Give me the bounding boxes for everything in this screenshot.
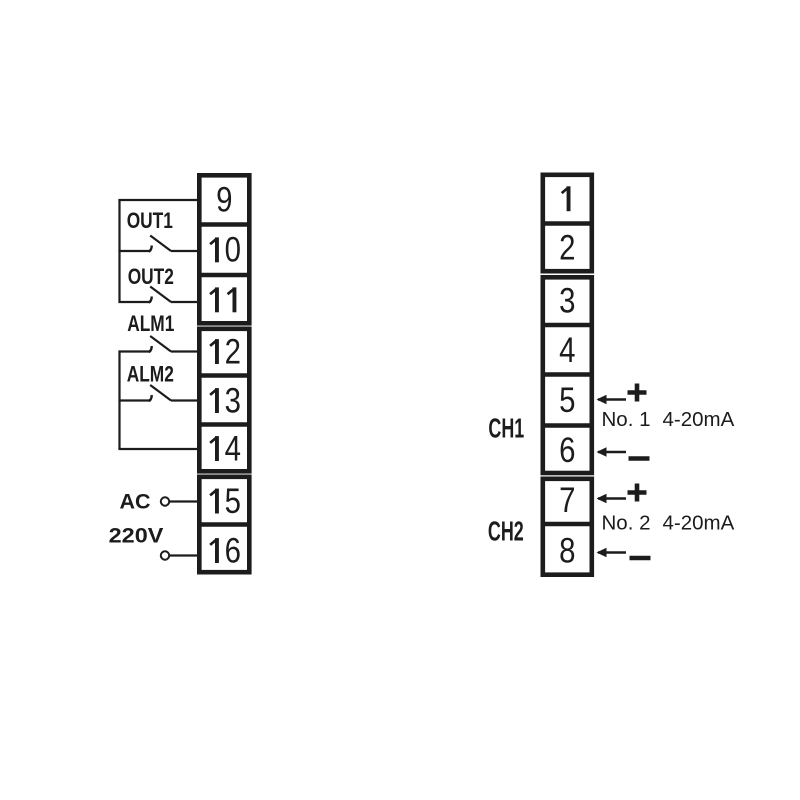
- switch OUT2 contact tick: [149, 297, 152, 303]
- divider terminals 3/4: [541, 323, 595, 327]
- divider terminals 4/5: [541, 372, 595, 376]
- svg-text:5: 5: [225, 482, 241, 521]
- wire to terminal 11 right segment: [171, 301, 197, 303]
- arrow into terminal 7: [597, 494, 627, 503]
- terminal block right section 3-6: [543, 277, 592, 473]
- divider terminals 5/6: [541, 423, 595, 427]
- divider terminals 15/16: [197, 522, 252, 526]
- svg-text:3: 3: [225, 381, 241, 420]
- terminal block right section 1-2: [543, 175, 592, 271]
- minus sign channel 2: [630, 556, 651, 561]
- divider terminals 1/2: [541, 221, 595, 225]
- svg-text:6: 6: [559, 431, 575, 470]
- plus sign channel 1: [628, 384, 647, 402]
- wire to terminal 16: [170, 554, 197, 556]
- terminal 15 label: [210, 482, 241, 521]
- terminal 16 label: [210, 531, 241, 570]
- terminal 14 label: [210, 429, 241, 468]
- svg-text:5: 5: [559, 381, 575, 420]
- terminal 10 label: [210, 230, 241, 269]
- switch ALM1 blade: [150, 336, 171, 352]
- terminal 12 label: [210, 332, 241, 371]
- wire to terminal 15: [170, 500, 197, 502]
- divider terminals 7/8: [541, 522, 595, 526]
- AC terminal circle 16: [161, 551, 169, 559]
- terminal 13 label: [210, 381, 241, 420]
- wire to terminal 12 left segment: [118, 350, 149, 352]
- wire to terminal 10 left segment: [118, 250, 149, 252]
- svg-text:3: 3: [559, 281, 575, 320]
- terminal block right section 7-8: [543, 479, 592, 575]
- divider terminals 13/14: [197, 422, 252, 426]
- arrow into terminal 8: [597, 548, 627, 557]
- switch OUT1 contact tick: [149, 246, 152, 252]
- minus sign channel 1: [629, 456, 650, 461]
- switch OUT1 blade: [150, 236, 171, 252]
- divider terminals 9/10: [197, 222, 252, 226]
- wire to terminal 10 right segment: [171, 250, 197, 252]
- svg-text:AC: AC: [119, 490, 150, 514]
- switch ALM1 contact tick: [149, 346, 152, 352]
- svg-text:6: 6: [225, 531, 241, 570]
- divider terminals 10/11: [197, 273, 252, 277]
- switch OUT2 blade: [150, 287, 171, 303]
- switch ALM2 contact tick: [149, 395, 152, 401]
- svg-text:7: 7: [559, 481, 575, 520]
- terminal 11 label: [210, 287, 236, 312]
- wire to terminal 13 left segment: [118, 399, 149, 401]
- svg-text:2: 2: [559, 228, 575, 267]
- arrow into terminal 5: [597, 395, 627, 404]
- terminal block left section 12-14: [199, 329, 249, 472]
- svg-text:0: 0: [225, 230, 241, 269]
- divider terminals 12/13: [197, 373, 252, 377]
- svg-text:CH1: CH1: [488, 413, 524, 444]
- terminal 1 label: [562, 186, 571, 211]
- svg-text:No. 1: No. 1: [602, 408, 651, 431]
- wire to terminal 9: [118, 199, 197, 201]
- svg-text:No. 2: No. 2: [602, 512, 651, 535]
- svg-text:2: 2: [225, 332, 241, 371]
- svg-text:ALM2: ALM2: [127, 363, 174, 388]
- svg-text:ALM1: ALM1: [127, 312, 174, 337]
- svg-text:8: 8: [559, 531, 575, 570]
- svg-text:9: 9: [216, 180, 232, 219]
- wire bus ALM group vertical: [118, 352, 120, 450]
- svg-text:4-20mA: 4-20mA: [663, 408, 735, 431]
- switch ALM2 blade: [150, 385, 171, 401]
- plus sign channel 2: [628, 484, 647, 502]
- wire to terminal 14: [118, 448, 197, 450]
- wire to terminal 12 right segment: [171, 350, 197, 352]
- wire to terminal 11 left segment: [118, 301, 149, 303]
- svg-text:220V: 220V: [109, 524, 164, 548]
- svg-text:OUT1: OUT1: [127, 209, 173, 234]
- wire bus OUT group vertical: [118, 200, 120, 303]
- AC terminal circle 15: [161, 497, 169, 505]
- terminal block left section 9-11: [199, 175, 249, 323]
- arrow into terminal 6: [597, 447, 627, 456]
- svg-text:4: 4: [225, 429, 241, 468]
- svg-text:4-20mA: 4-20mA: [663, 512, 735, 535]
- svg-text:OUT2: OUT2: [128, 265, 174, 290]
- terminal block left section 15-16: [199, 477, 249, 572]
- svg-text:4: 4: [559, 331, 575, 370]
- wire to terminal 13 right segment: [171, 399, 197, 401]
- svg-text:CH2: CH2: [488, 516, 524, 547]
